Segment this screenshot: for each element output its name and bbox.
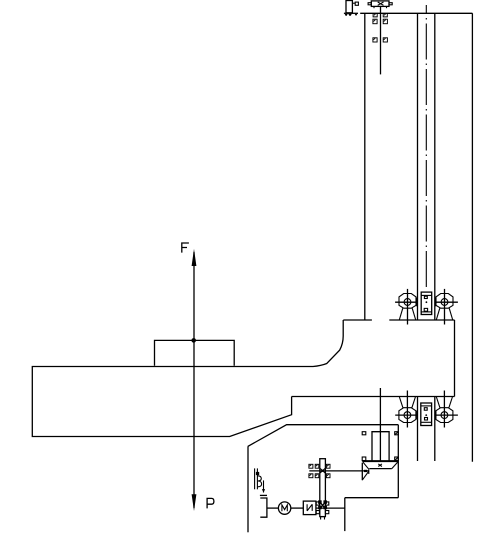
fork beam outline	[32, 320, 343, 437]
force line F-P	[193, 252, 195, 508]
carriage inner slant	[248, 425, 398, 447]
load application dot	[191, 338, 196, 343]
riser line right	[345, 498, 399, 531]
clamp squares row 2	[373, 19, 388, 24]
check valve triangle	[362, 463, 369, 481]
roller upper-left	[395, 289, 418, 325]
valve bottom hook	[321, 517, 325, 520]
lower rail block	[421, 403, 432, 426]
lower support line	[292, 396, 455, 398]
roller lower-left	[395, 391, 418, 428]
drain arrow with label B	[255, 468, 266, 492]
mast centerline	[425, 5, 427, 289]
top cylinder with X	[368, 1, 392, 8]
suction line tank-motor	[267, 507, 279, 509]
top wall line	[360, 12, 472, 14]
pressure line pump-valve	[316, 507, 345, 509]
carriage right edge	[454, 320, 456, 397]
clamp squares row 1	[373, 14, 387, 17]
shaft motor-pump	[291, 507, 304, 509]
lift cylinder body	[372, 432, 389, 461]
anchor bracket top-left	[344, 1, 359, 16]
label P	[207, 498, 214, 508]
valve side hooks lower	[316, 502, 329, 514]
upper rail block	[421, 292, 432, 314]
pressure line to cylinder	[309, 470, 369, 472]
load pedestal	[155, 340, 235, 365]
arrowhead F up	[192, 249, 197, 266]
roller upper-right	[435, 289, 458, 325]
motor	[278, 502, 290, 514]
cylinder right wall line	[397, 425, 399, 498]
roller lower-right	[435, 391, 458, 428]
upper support line	[343, 319, 454, 321]
tank	[260, 495, 267, 517]
hydraulic area left boundary	[247, 446, 249, 532]
valve port squares upper	[309, 464, 330, 477]
piston rod	[379, 388, 381, 461]
wire rope from top cylinder	[380, 6, 382, 74]
valve X upper	[320, 468, 326, 473]
arrowhead P down	[192, 494, 197, 511]
valve X lower section	[319, 501, 327, 509]
long rod left of mast	[364, 13, 366, 320]
right boundary line	[471, 13, 473, 462]
mast column left	[417, 13, 419, 461]
control valve body	[320, 459, 326, 517]
mast column right	[434, 13, 436, 461]
cylinder corner squares	[362, 432, 398, 461]
label F	[182, 243, 189, 253]
clamp squares row 3	[373, 38, 388, 42]
cylinder base funnel	[362, 461, 398, 469]
pump box	[303, 501, 316, 514]
